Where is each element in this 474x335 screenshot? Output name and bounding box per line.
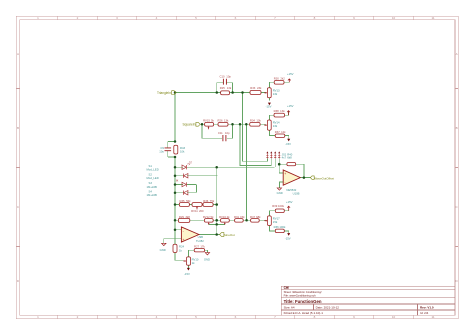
svg-text:R34: R34: [250, 119, 256, 123]
svg-text:R39 100k: R39 100k: [272, 204, 284, 208]
potentiometer RV15: [205, 122, 214, 126]
wire RV10 bottom: [187, 265, 189, 268]
svg-text:A: A: [17, 52, 19, 56]
wire RV13 bottom: [268, 98, 270, 101]
resistor R33: [250, 91, 261, 95]
ground under U10: [277, 188, 281, 190]
potentiometer RV10: [187, 257, 191, 265]
node RC top: [174, 140, 177, 143]
diode D10 row4: [184, 191, 188, 195]
wire RV15 wiper bypass to C11: [202, 124, 233, 138]
svg-text:C10: C10: [219, 74, 225, 78]
node U9B output: [215, 233, 218, 236]
resistor R26: [218, 122, 228, 126]
jumper block JS1 pins: [266, 151, 280, 158]
svg-text:15k: 15k: [240, 215, 245, 219]
svg-text:15k: 15k: [273, 220, 278, 224]
svg-text:+: +: [182, 238, 184, 242]
svg-text:RV10: RV10: [192, 258, 199, 262]
potentiometer RV13: [267, 88, 271, 98]
resistor R47: [251, 219, 260, 223]
svg-text:RV16: RV16: [219, 215, 226, 219]
svg-text:10k: 10k: [180, 149, 185, 153]
svg-text:R30: R30: [274, 76, 280, 80]
svg-text:-15V: -15V: [184, 272, 190, 276]
resistor R40 feedback: [287, 162, 296, 165]
node diode row4: [174, 191, 177, 194]
svg-text:NE5532: NE5532: [286, 188, 296, 192]
svg-text:Id: 2/4: Id: 2/4: [420, 311, 429, 315]
capacitor C10: [165, 79, 227, 151]
svg-text:2k2: 2k2: [280, 76, 285, 80]
ground at U9B non-inverting input: [162, 243, 166, 245]
svg-text:SquareIn: SquareIn: [182, 123, 195, 127]
op-amp U9B: [181, 227, 199, 242]
components: [173, 80, 296, 265]
wire RV14 top to R38: [269, 111, 288, 120]
svg-text:10: 10: [392, 315, 396, 319]
potentiometer RV14: [267, 120, 271, 130]
svg-text:KiCad E.D.A. kicad (5.1.10)-1: KiCad E.D.A. kicad (5.1.10)-1: [284, 311, 324, 315]
resistor R36b: [275, 229, 284, 233]
svg-text:11: 11: [431, 16, 434, 20]
node C10 left: [216, 91, 219, 94]
power -15V RV13: [187, 103, 290, 271]
node diode row3: [174, 183, 177, 186]
svg-text:S2: S2: [149, 172, 153, 176]
svg-text:10u: 10u: [159, 149, 164, 153]
svg-text:13k: 13k: [273, 92, 278, 96]
wire TriangleIn main horizontal: [175, 92, 266, 94]
wire bus x216.7 clip network: [216, 167, 218, 234]
wire RV17 bottom to R36b: [269, 226, 288, 234]
svg-text:R38: R38: [274, 109, 280, 113]
svg-text:3k8: 3k8: [185, 215, 190, 219]
node C11 left: [201, 123, 204, 126]
resistor R29: [178, 218, 189, 222]
svg-text:4x7: 4x7: [282, 155, 287, 159]
svg-text:R36: R36: [203, 199, 209, 203]
svg-text:RV15: RV15: [203, 119, 210, 123]
wire R27 left to RV10 top: [188, 250, 194, 257]
svg-text:R29: R29: [179, 215, 185, 219]
wire U10 inverting input to GND: [279, 182, 283, 188]
hierarchical label SquareIn: [182, 122, 200, 126]
node C11 right: [231, 123, 234, 126]
wire triangle feed to jumper pin1: [243, 93, 268, 162]
wire vertical bus from TriangleIn node down: [174, 93, 176, 142]
svg-text:B: B: [456, 126, 458, 130]
wire jumper pin4 to opamp node: [279, 158, 283, 173]
svg-text:-15V: -15V: [285, 236, 291, 240]
svg-text:13k: 13k: [227, 86, 232, 90]
svg-text:C11: C11: [218, 131, 223, 135]
svg-text:+15V: +15V: [287, 72, 294, 76]
wires: [164, 79, 311, 268]
wire U9B inverting input: [175, 229, 181, 231]
wire diode row 4: [175, 192, 196, 194]
svg-text:17k: 17k: [200, 245, 205, 249]
svg-text:-: -: [285, 180, 286, 184]
wire diode row 3: [175, 184, 196, 186]
svg-text:SineOut: SineOut: [224, 233, 235, 237]
svg-text:-15V: -15V: [266, 104, 272, 108]
wire R40 feedback left: [279, 163, 287, 165]
svg-text:B: B: [17, 126, 19, 130]
svg-text:Mod_LED: Mod_LED: [147, 168, 159, 172]
node R36 right: [215, 203, 218, 206]
node diode row1: [174, 166, 177, 169]
svg-text:13k: 13k: [224, 119, 229, 123]
power +15V lower: [287, 206, 290, 211]
potentiometer RV16: [221, 219, 230, 223]
wire RV12 RV16 wiper bus: [209, 223, 225, 225]
svg-text:1M+2dB: 1M+2dB: [147, 193, 157, 197]
svg-text:-15V: -15V: [285, 142, 291, 146]
svg-text:GND: GND: [277, 191, 283, 195]
svg-text:6k8: 6k8: [287, 156, 292, 160]
wire R35 chain row: [175, 204, 217, 206]
svg-text:200: 200: [199, 209, 204, 213]
svg-text:R37: R37: [275, 130, 281, 134]
svg-text:+: +: [284, 172, 286, 176]
resistor R39: [275, 209, 284, 213]
resistor R43: [174, 145, 178, 154]
wire C9/R43 top bar: [168, 141, 175, 143]
svg-text:Sheet: /Waveform Conditioning/: Sheet: /Waveform Conditioning/: [284, 290, 322, 294]
svg-text:GND: GND: [160, 248, 166, 252]
svg-text:+15V: +15V: [286, 200, 293, 204]
wire U9B non-inverting input to GND: [164, 239, 182, 243]
svg-text:10p: 10p: [225, 131, 230, 135]
node square tap: [245, 123, 248, 126]
node TriangleIn bus: [174, 91, 177, 94]
node wiper bus: [215, 223, 218, 226]
svg-text:C9: C9: [160, 146, 164, 150]
svg-text:File: waveConditioning.sch: File: waveConditioning.sch: [284, 294, 316, 298]
wire diode row 2: [175, 175, 218, 177]
wire bus to R24: [174, 230, 176, 245]
potentiometer RV12: [204, 219, 213, 223]
svg-text:RV14: RV14: [273, 121, 280, 125]
node U10 plus input: [278, 163, 281, 166]
svg-text:R36 100k: R36 100k: [274, 225, 286, 229]
svg-text:CH!: CH!: [284, 286, 290, 290]
hierarchical label TriangleIn: [157, 91, 176, 95]
wire SquareIn row: [200, 123, 266, 125]
resistor R24: [173, 244, 177, 252]
node U9B minus: [174, 228, 177, 231]
power +15V mid: [287, 111, 290, 116]
diode D7 row1: [176, 163, 190, 195]
svg-text:TL082: TL082: [196, 239, 204, 243]
svg-text:R47: R47: [250, 215, 256, 219]
wire U9B output to SineOut: [199, 234, 220, 236]
svg-text:75k: 75k: [210, 199, 215, 203]
svg-text:+15V: +15V: [287, 104, 294, 108]
hierarchical label SineOut: [220, 233, 235, 237]
node triangle tap: [241, 91, 244, 94]
field labels teal: [147, 72, 300, 276]
svg-text:RV11: RV11: [191, 209, 198, 213]
diode D8 row2: [184, 174, 188, 178]
wire RV17 top to R39: [269, 207, 288, 216]
wire bus lower section: [174, 157, 176, 230]
node chain cross: [215, 219, 218, 222]
wire C9/R43 bottom bar: [168, 156, 175, 158]
power +15V top: [287, 79, 291, 211]
wire lower gain chain row: [175, 219, 266, 221]
node chain mid: [245, 219, 248, 222]
svg-text:U10B: U10B: [293, 192, 300, 196]
power -15V RV10: [187, 268, 190, 271]
potentiometer RV11: [192, 203, 202, 207]
node chain R29: [174, 219, 177, 222]
svg-text:12k: 12k: [281, 130, 286, 134]
svg-text:Mod_LED: Mod_LED: [147, 176, 159, 180]
op-amp U10: [283, 170, 300, 185]
svg-text:1M+2dB: 1M+2dB: [147, 185, 157, 189]
wire R40 feedback right: [296, 164, 304, 177]
ground at R27: [205, 253, 209, 255]
svg-text:11: 11: [431, 315, 434, 319]
svg-text:13k: 13k: [256, 119, 261, 123]
node chain R35: [174, 203, 177, 206]
resistor R36: [203, 203, 213, 207]
wire U10 output: [300, 177, 310, 179]
node clip bus top: [215, 166, 218, 169]
power -15V RV17: [287, 233, 290, 236]
svg-text:R35: R35: [179, 199, 185, 203]
svg-text:R26: R26: [217, 119, 223, 123]
resistor R34: [250, 122, 260, 126]
wire R24 bottom to RV10 wiper: [175, 253, 183, 261]
svg-text:13k: 13k: [280, 109, 285, 113]
resistor R25: [221, 91, 230, 95]
power -15V RV14: [287, 139, 290, 142]
svg-text:13k: 13k: [273, 124, 278, 128]
resistor R30: [274, 80, 284, 84]
svg-text:RV12: RV12: [203, 215, 210, 219]
wire R27 right to GND: [205, 250, 208, 252]
wire RV13 top to R30: [269, 79, 289, 88]
wire C10/R25 parallel stubs: [217, 83, 233, 93]
svg-text:RV17: RV17: [273, 217, 280, 221]
wire jumper pin3 drop: [274, 158, 276, 167]
svg-text:RV13: RV13: [273, 88, 280, 92]
capacitor C11: [223, 135, 226, 141]
diode D9 row3: [182, 182, 186, 186]
svg-text:Date: 2021-10-12: Date: 2021-10-12: [316, 306, 340, 310]
wire RV14 bottom to R37: [269, 130, 288, 139]
capacitor C9: [165, 148, 172, 151]
svg-text:Rev: V1.0: Rev: V1.0: [420, 306, 434, 310]
SCHEMATIC: [147, 72, 335, 276]
svg-text:23k: 23k: [257, 86, 262, 90]
svg-text:56k: 56k: [186, 199, 191, 203]
node C10 right: [231, 91, 234, 94]
resistor R38: [274, 113, 285, 117]
svg-text:U9B: U9B: [198, 235, 204, 239]
node RC bottom: [174, 156, 177, 159]
resistor R37: [275, 134, 285, 138]
svg-text:S1: S1: [149, 164, 153, 168]
svg-text:R33: R33: [250, 86, 256, 90]
svg-text:S4: S4: [149, 189, 153, 193]
svg-text:Title: FunctionGen: Title: FunctionGen: [284, 299, 322, 304]
resistor R35: [179, 203, 189, 207]
potentiometer RV17: [268, 216, 272, 226]
value labels red: [179, 74, 286, 248]
node U10 feedback out: [303, 176, 306, 179]
svg-text:10p: 10p: [226, 74, 231, 78]
svg-text:S3: S3: [149, 181, 153, 185]
svg-text:R31: R31: [234, 215, 240, 219]
resistor R31: [235, 219, 244, 223]
svg-text:10: 10: [392, 16, 396, 20]
wire square feed to jumper pin2: [246, 124, 248, 220]
svg-text:R43: R43: [180, 146, 186, 150]
junction dots: [174, 91, 305, 236]
node diode row2: [174, 174, 177, 177]
wire bus x196.5 rows 3-4: [196, 185, 198, 193]
svg-text:R24: R24: [179, 245, 185, 249]
svg-text:R27: R27: [194, 245, 200, 249]
title block: [281, 286, 455, 315]
svg-text:A: A: [456, 52, 458, 56]
hierarchical label WaveOutOffset: [310, 176, 334, 180]
svg-text:WaveOutOffset: WaveOutOffset: [314, 176, 334, 180]
wire diode row 1: [175, 166, 275, 168]
wire C9 stubs: [167, 142, 169, 158]
svg-text:Size: A4: Size: A4: [284, 306, 295, 310]
resistor R27: [194, 249, 204, 252]
svg-text:TriangleIn: TriangleIn: [157, 91, 171, 95]
svg-text:GND: GND: [204, 257, 210, 261]
svg-text:68k: 68k: [256, 215, 261, 219]
svg-text:R25: R25: [220, 86, 226, 90]
